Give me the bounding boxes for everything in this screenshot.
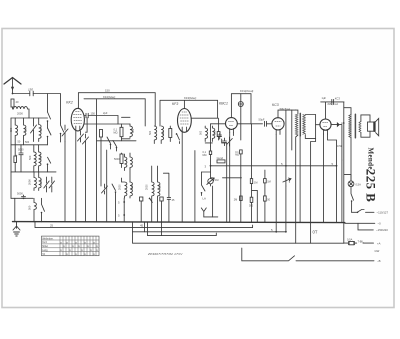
- coil L6 500: [39, 145, 43, 172]
- svg-text:~110/127: ~110/127: [377, 211, 389, 215]
- coil L16 lower: [146, 166, 154, 222]
- svg-text:2µF: 2µF: [103, 111, 108, 115]
- capacitor C8: [218, 133, 222, 139]
- potentiometer P1: [207, 166, 219, 186]
- wire x310: [311, 138, 316, 243]
- svg-text:3000: 3000: [131, 184, 134, 190]
- wire mid: [84, 123, 130, 125]
- svg-text:GW: GW: [375, 249, 380, 253]
- svg-text:Gund: Gund: [217, 156, 224, 160]
- coil L19: [205, 126, 216, 143]
- svg-text:225 B: 225 B: [364, 169, 379, 202]
- trimmer CT8: [102, 184, 108, 194]
- resistor R3 0,1M: [114, 124, 124, 141]
- svg-text:2000: 2000: [17, 112, 23, 116]
- capacitor C4: [86, 111, 119, 132]
- node 5d: [332, 162, 338, 167]
- coil L18: [199, 126, 207, 141]
- bus A chassis: [13, 222, 345, 223]
- trimmer CT1: [31, 118, 37, 142]
- svg-text:3000: 3000: [159, 184, 162, 190]
- wire grid top KK2: [78, 93, 155, 126]
- svg-text:5000: 5000: [17, 192, 23, 196]
- svg-text:2000: 2000: [28, 179, 32, 185]
- svg-text:150: 150: [91, 112, 96, 116]
- switch S7: [112, 184, 116, 222]
- svg-text:KF2(blau): KF2(blau): [103, 95, 115, 99]
- svg-text:+A: +A: [377, 242, 381, 246]
- wire busA to busC link: [144, 222, 146, 232]
- Gund box: [217, 156, 225, 163]
- wire KF3 cathode: [181, 132, 183, 222]
- svg-text:47Ω: 47Ω: [337, 145, 342, 148]
- coil L11: [130, 153, 132, 169]
- node 5a: [118, 198, 125, 222]
- coil L5 500: [28, 145, 36, 172]
- capacitor C3 5000: [17, 192, 26, 200]
- svg-text:1M: 1M: [267, 180, 270, 183]
- resistor R13: [264, 183, 267, 222]
- coil L17 lower: [158, 166, 162, 222]
- svg-text:Wellenber.: Wellenber.: [42, 237, 54, 240]
- wire mid horizontal: [211, 165, 337, 167]
- svg-text:0,5A: 0,5A: [347, 237, 353, 241]
- wire KK2 cathode: [65, 130, 76, 222]
- wire KC3b grid: [316, 124, 320, 126]
- trimmer CT3: [44, 177, 49, 192]
- wire x300: [299, 136, 301, 222]
- wire horizontal row3: [11, 145, 56, 172]
- wire busA to busD link: [161, 222, 163, 236]
- wire jack column: [212, 186, 214, 217]
- tube KBC1: [219, 102, 237, 133]
- svg-text:500: 500: [39, 155, 43, 160]
- ground: [13, 222, 20, 236]
- switch S12: [201, 172, 211, 196]
- capacitor C9: [163, 173, 175, 222]
- wire row4: [11, 197, 33, 199]
- bus D: [148, 222, 217, 236]
- node 5b: [118, 214, 125, 218]
- node antenna junction: [12, 93, 14, 95]
- lamp LP1: [348, 181, 361, 187]
- switch S3: [60, 123, 64, 142]
- svg-text:5000: 5000: [114, 158, 120, 161]
- svg-text:5000: 5000: [18, 148, 24, 151]
- svg-text:500: 500: [149, 130, 152, 135]
- svg-text:45: 45: [140, 224, 144, 228]
- svg-text:−B: −B: [377, 259, 381, 263]
- coil L13 3000: [130, 182, 134, 198]
- wire KBC1 top bracket: [231, 94, 251, 124]
- svg-text:TA: TA: [42, 253, 45, 256]
- resistor R9 0,1M: [235, 150, 242, 222]
- switch S1: [47, 112, 51, 128]
- capacitor C6 50µF: [259, 118, 272, 127]
- capacitor C1 150: [28, 88, 33, 96]
- svg-text:500: 500: [25, 141, 30, 144]
- terminal t2: [345, 222, 381, 226]
- svg-text:0,5A: 0,5A: [356, 183, 362, 187]
- svg-text:Mende: Mende: [366, 148, 374, 170]
- resistor R1 50: [14, 145, 17, 163]
- indicator M1: [238, 94, 243, 140]
- tube KK2: [66, 101, 84, 131]
- svg-text:~0: ~0: [378, 222, 382, 226]
- switch S8: [176, 133, 180, 143]
- svg-text:MΩ: MΩ: [203, 154, 207, 157]
- switch S9: [149, 198, 153, 203]
- coil L2 350: [9, 118, 21, 145]
- output transformer T2: [344, 108, 356, 181]
- svg-text:2M: 2M: [234, 198, 237, 201]
- terminal t1: [352, 210, 389, 215]
- svg-text:0T: 0T: [313, 230, 318, 235]
- svg-text:1µF: 1µF: [322, 96, 327, 100]
- wire L11 down: [129, 169, 131, 183]
- switch S4: [41, 198, 45, 222]
- wire jack bus: [204, 216, 218, 218]
- trimmer CT5: [62, 125, 68, 142]
- svg-text:MΩ: MΩ: [114, 132, 118, 135]
- wire row3 drop: [10, 172, 12, 198]
- tube KF3: [172, 102, 191, 133]
- speaker LS: [359, 115, 379, 137]
- svg-text:Kurz: Kurz: [42, 241, 48, 244]
- wire x294: [291, 110, 293, 150]
- svg-text:KF3(blau): KF3(blau): [184, 96, 196, 100]
- tube KC3b: [320, 119, 331, 134]
- switch S6: [113, 141, 117, 152]
- svg-text:2000: 2000: [119, 184, 122, 190]
- resistor R12 500: [249, 197, 254, 222]
- switch S2b: [47, 157, 51, 172]
- svg-text:KC3: KC3: [335, 96, 341, 100]
- small box R7: [160, 197, 163, 222]
- switch S13 mains: [351, 187, 354, 213]
- svg-text:500: 500: [162, 130, 165, 135]
- wire lamp feed: [344, 102, 351, 243]
- coil L1 2000: [13, 107, 30, 118]
- svg-text:350: 350: [9, 127, 13, 132]
- capacitor C7 1µF: [322, 96, 341, 106]
- capacitor C5: [223, 138, 227, 146]
- svg-text:LA: LA: [203, 197, 207, 201]
- tube KC3a: [272, 103, 290, 134]
- resistor R16 0T: [313, 230, 318, 235]
- wire anode KK2: [84, 115, 86, 117]
- bus C: [133, 222, 286, 232]
- svg-text:1M: 1M: [215, 179, 218, 182]
- coil L7 2000: [28, 172, 37, 191]
- svg-text:KC3(2mal): KC3(2mal): [240, 89, 253, 93]
- wire left down to bus: [14, 198, 16, 222]
- jack Y: [201, 208, 206, 217]
- wire KC3a anode top: [278, 110, 296, 118]
- wire RC pair frame: [122, 117, 131, 139]
- coil L15: [161, 126, 165, 144]
- wire KC3b anode right: [331, 124, 337, 126]
- svg-text:KK2: KK2: [66, 101, 73, 105]
- wire to R10: [223, 177, 242, 179]
- wire horizontal row2: [11, 144, 48, 146]
- svg-text:3000: 3000: [39, 179, 43, 185]
- svg-text:150: 150: [28, 88, 33, 92]
- wire left bus: [10, 118, 12, 145]
- terminal t3: [358, 223, 388, 232]
- trimmer CT9: [227, 137, 233, 146]
- coil L12 2000: [119, 178, 127, 198]
- wire KC3a cathode: [275, 134, 277, 231]
- bus B: [35, 222, 253, 228]
- trimmer CT6: [78, 131, 84, 142]
- svg-text:150: 150: [105, 89, 110, 93]
- svg-text:Lang: Lang: [42, 249, 48, 252]
- coil L8 3000: [39, 172, 43, 191]
- coil L4 500: [39, 118, 43, 142]
- svg-text:1M: 1M: [254, 182, 257, 185]
- wire KBC1 grid left: [211, 124, 226, 146]
- wire KC3b top: [321, 102, 344, 119]
- svg-text:500: 500: [213, 130, 216, 135]
- svg-text:2000: 2000: [146, 184, 149, 190]
- fuse F1: [11, 99, 19, 107]
- wire antenna to C1: [13, 93, 30, 95]
- coil L3: [24, 118, 30, 145]
- switch S11: [217, 118, 220, 140]
- svg-text:KF3: KF3: [172, 102, 178, 106]
- wire horizontal row1: [11, 117, 48, 119]
- resistor R5: [169, 126, 172, 142]
- resistor R8 0,1M: [203, 146, 212, 166]
- svg-text:500: 500: [39, 127, 43, 132]
- svg-text:50µF: 50µF: [259, 118, 265, 122]
- wire x195: [194, 151, 196, 222]
- bus F: [242, 248, 374, 261]
- switch S2: [47, 128, 51, 145]
- svg-text:25: 25: [50, 224, 54, 228]
- interstage transformer T1: [295, 110, 315, 243]
- resistor R2: [100, 130, 103, 187]
- resistor R4 5000: [114, 153, 123, 168]
- svg-text:MΩ: MΩ: [235, 154, 239, 157]
- wire KF3 top: [160, 100, 218, 126]
- wire KBC1 to KC3: [237, 123, 262, 125]
- svg-text:500: 500: [199, 130, 202, 135]
- resistor R11: [250, 124, 257, 222]
- bus E: [133, 232, 344, 243]
- svg-text:500: 500: [28, 205, 32, 210]
- antenna: [4, 78, 21, 94]
- small box R6: [140, 197, 143, 222]
- resistor R14: [264, 170, 271, 183]
- node 5c: [281, 110, 287, 186]
- coil L10: [130, 124, 135, 138]
- svg-text:KC3: KC3: [272, 103, 279, 107]
- svg-text:KBC1: KBC1: [219, 102, 228, 106]
- wire diode column lower: [341, 160, 343, 222]
- potentiometer P2: [283, 178, 291, 233]
- svg-text:300: 300: [132, 128, 135, 133]
- svg-text:60V,4mA: 60V,4mA: [328, 102, 339, 106]
- node g: [205, 164, 212, 168]
- resistor R10: [234, 196, 242, 201]
- svg-text:~150/220: ~150/220: [376, 228, 388, 232]
- svg-text:150: 150: [24, 127, 28, 132]
- svg-text:ZP4607/7/57/82 17/IV: ZP4607/7/57/82 17/IV: [147, 252, 183, 256]
- coil L14: [149, 126, 157, 144]
- svg-text:500: 500: [28, 155, 32, 160]
- wire screen KK2: [84, 99, 145, 126]
- wire KBC1 down: [222, 133, 234, 222]
- fuse F2: [344, 237, 381, 245]
- switch S5: [107, 137, 111, 149]
- wire column x106: [106, 150, 108, 222]
- wire row mid2: [97, 99, 137, 222]
- capacitor C2 5000: [16, 145, 24, 172]
- coil L11b: [125, 154, 127, 171]
- wire KC3b cathode: [324, 134, 337, 222]
- table: [42, 236, 100, 256]
- svg-text:Mittel: Mittel: [42, 245, 48, 248]
- coil L9 500: [28, 198, 37, 222]
- trimmer CT4: [49, 177, 54, 192]
- trimmer CT7: [83, 134, 89, 222]
- diode AB: [337, 121, 345, 160]
- wire C1 to right drop: [33, 94, 60, 124]
